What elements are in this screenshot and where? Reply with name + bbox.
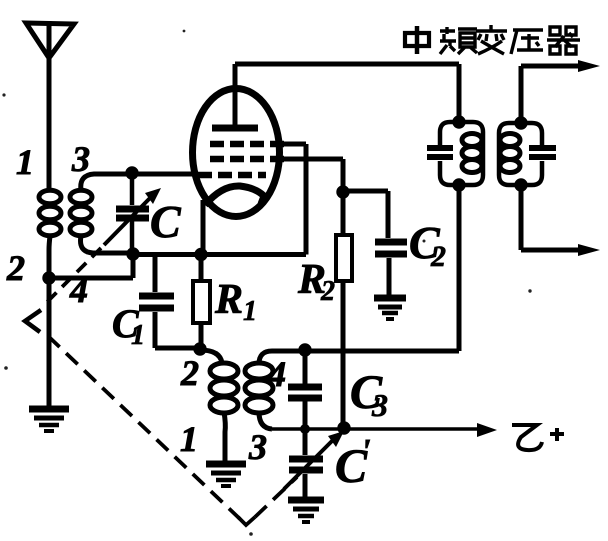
svg-text:3: 3 [248,427,267,467]
char qi [547,27,580,54]
resistor R2 [336,159,352,428]
transformer T1 secondary coil (pins 3-4) [70,174,196,253]
node: C3/C' junction [300,424,310,434]
wire: suppressor to cathode bus [284,144,306,255]
ground (C') [288,500,324,522]
transformer T2 left coil (osc grid coil, pins 2-1) [200,350,238,461]
node: tank2 bottom [514,178,527,191]
wire: tank2 top output [521,66,580,123]
gang line: C to arrow end [42,248,101,307]
gang line corner [238,517,255,525]
variable capacitor C [104,173,161,254]
node: oscillator grid junction (pin 2) [193,342,206,355]
svg-text:4: 4 [267,354,286,394]
svg-text:1: 1 [131,320,145,351]
wire: screen grid lead [284,157,343,162]
node: tank2 top [514,116,527,129]
tube grid g1 (control, dashed) [198,172,266,179]
svg-text:3: 3 [371,387,388,423]
ground (antenna circuit) [29,409,69,431]
tube cathode [205,186,264,205]
capacitor C2 [343,191,407,295]
svg-text:2: 2 [6,248,25,288]
arrow output bottom [578,244,600,256]
node: antenna/ground junction [42,271,55,284]
wire: cathode bus [133,252,306,257]
title: IF transformer (Chinese) [405,25,580,54]
gang line arrowhead (left) [25,310,41,332]
svg-text:2: 2 [320,276,335,307]
char pin [440,27,456,54]
svg-text:': ' [361,433,370,470]
svg-text:1: 1 [16,142,34,182]
node: tank1 bottom [452,178,465,191]
ground (C2) [374,298,406,319]
tube grid g2 (screen, dashed) [210,156,284,163]
node: osc pin4 / C3 junction [298,343,311,356]
node: grid tank top junction [125,166,138,179]
arrow to B+ [477,423,497,437]
gang line: rising to C' [255,477,297,517]
char bian [476,25,507,54]
svg-text:1: 1 [180,419,198,459]
svg-text:R: R [214,277,243,323]
capacitor C3 [288,351,322,429]
wire: T1 secondary bottom to ground bus [49,254,133,278]
node: B+ / R2 junction [337,421,350,434]
char zhong [415,26,420,54]
wire: plate lead [233,64,238,128]
svg-text:C: C [150,196,182,247]
variable capacitor C' [284,429,344,497]
svg-text:2: 2 [180,353,199,393]
wire: tank1 bottom to osc coil [457,185,462,351]
wire: down to ground [47,278,52,406]
transformer T1 primary coil (antenna coil, pins 1-2) [39,190,61,278]
capacitor C1 [139,254,200,348]
node: screen junction [336,185,349,198]
IF transformer tank 1 (primary LC) [427,122,483,185]
wire: B+ line [272,427,481,431]
svg-text:2: 2 [430,240,446,273]
svg-text:3: 3 [71,139,90,179]
char ya [511,30,543,54]
node: tank1 top [452,115,465,128]
tube V1 envelope [193,89,280,217]
tube grid g3 (suppressor, dashed) [210,141,284,148]
antenna [26,21,74,190]
svg-text:1: 1 [243,296,257,327]
wire: tank2 bottom output [521,185,580,250]
tube plate [212,125,258,132]
gang line: to C' (dashed V) [48,336,240,519]
wire: plate to IF transformer top [235,64,459,122]
wire: to IF transformer primary bottom [305,349,459,354]
transformer T2 right coil (osc plate coil, pins 4-3) [245,351,305,429]
ground (osc coil) [206,464,246,486]
resistor R1 [193,254,210,349]
IF transformer tank 2 (secondary LC) [499,123,556,185]
node: C bottom junction [126,247,139,260]
node: cathode junction [194,248,207,261]
label B+ (yi+) [512,425,564,450]
wire: cathode lead [201,200,206,254]
arrow output top [578,60,600,72]
